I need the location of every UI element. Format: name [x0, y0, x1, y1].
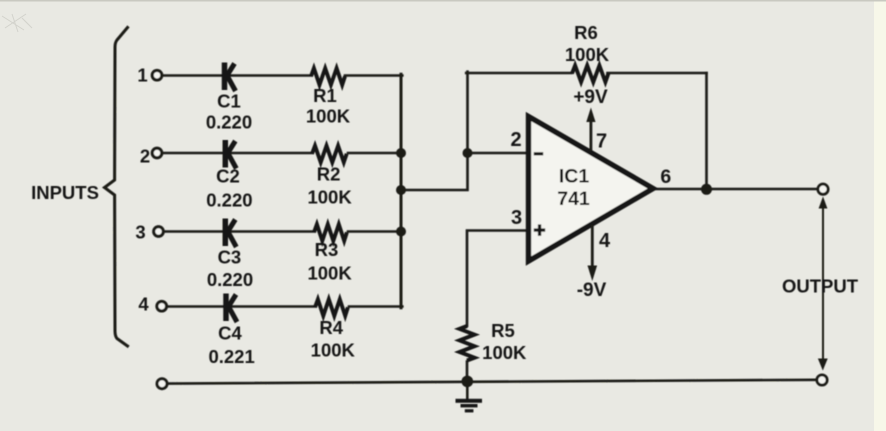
- terminal output bottom: [817, 375, 827, 385]
- svg-text:-9V: -9V: [577, 280, 607, 301]
- capacitor C3: [225, 219, 236, 248]
- node dot bus tap: [396, 185, 406, 195]
- wire ground stub: [466, 381, 469, 399]
- node dot bus row2: [396, 148, 406, 158]
- faint scan smudge top-left: [2, 14, 32, 32]
- svg-text:3: 3: [511, 207, 522, 229]
- capacitor C1: [225, 63, 236, 92]
- terminal output top: [818, 184, 828, 194]
- svg-text:1: 1: [137, 65, 147, 86]
- top faint scan line: [0, 0, 886, 2]
- wire ground rail bottom: [169, 380, 816, 384]
- wire input2: [162, 152, 313, 155]
- svg-text:C2: C2: [216, 166, 240, 187]
- svg-text:3: 3: [135, 222, 145, 243]
- wire bus tap to node: [401, 72, 468, 190]
- op-amp minus sign: [534, 152, 543, 155]
- op-amp plus sign: [534, 224, 545, 235]
- capacitor C4: [226, 294, 237, 323]
- svg-text:100K: 100K: [311, 339, 356, 360]
- resistor R5 (vertical): [460, 326, 475, 360]
- wire summing bus vertical: [400, 74, 403, 308]
- svg-text:R1: R1: [313, 85, 337, 106]
- node dot bus row3: [396, 227, 406, 237]
- svg-text:INPUTS: INPUTS: [31, 182, 99, 203]
- wire feedback top right: [608, 72, 707, 75]
- svg-text:100K: 100K: [307, 263, 352, 284]
- terminal input 1: [152, 70, 162, 80]
- op-amp IC1 triangle: [529, 117, 654, 262]
- svg-text:+9V: +9V: [573, 87, 608, 108]
- node dot inverting input: [463, 148, 473, 158]
- svg-text:100K: 100K: [565, 44, 610, 65]
- svg-text:100K: 100K: [482, 342, 527, 363]
- svg-text:741: 741: [557, 188, 590, 210]
- svg-text:2: 2: [510, 129, 521, 151]
- -9V arrow: [588, 225, 598, 281]
- svg-text:0.221: 0.221: [208, 346, 254, 367]
- capacitor C2: [225, 140, 236, 169]
- svg-text:IC1: IC1: [559, 166, 590, 188]
- svg-text:OUTPUT: OUTPUT: [782, 276, 859, 297]
- svg-text:0.220: 0.220: [206, 190, 252, 211]
- resistor R3: [314, 224, 347, 241]
- svg-text:7: 7: [596, 131, 607, 153]
- svg-text:6: 6: [660, 166, 671, 188]
- svg-text:C4: C4: [218, 323, 242, 344]
- wire output: [653, 188, 816, 191]
- wire pin3: [467, 231, 529, 327]
- wire input2 to bus: [348, 152, 401, 155]
- svg-text:R4: R4: [319, 317, 343, 338]
- wire input3 to bus: [348, 230, 401, 233]
- wire R5 bottom: [466, 362, 469, 382]
- wire feedback top: [466, 72, 571, 75]
- brace INPUTS: [105, 28, 128, 347]
- svg-text:C3: C3: [218, 246, 242, 267]
- terminal input 3: [154, 227, 164, 237]
- node dot R5 ground junction: [462, 376, 474, 388]
- svg-text:100K: 100K: [307, 187, 352, 208]
- wire input1 to bus: [345, 74, 402, 77]
- svg-text:0.220: 0.220: [206, 112, 252, 133]
- svg-text:0.220: 0.220: [207, 269, 253, 290]
- wire input3: [164, 230, 315, 233]
- output double arrow: [818, 197, 828, 371]
- ground symbol: [456, 399, 483, 413]
- svg-text:100K: 100K: [306, 106, 351, 127]
- right page-edge light strip: [874, 0, 886, 431]
- terminal ground left: [157, 379, 167, 389]
- svg-text:4: 4: [599, 230, 611, 252]
- wire input1: [162, 74, 312, 77]
- terminal input 4: [157, 301, 167, 311]
- svg-text:R3: R3: [315, 239, 339, 260]
- terminal input 2: [152, 148, 162, 158]
- resistor R6: [572, 66, 608, 83]
- resistor R2: [312, 146, 347, 163]
- wire pin2: [468, 152, 529, 155]
- svg-text:4: 4: [138, 294, 149, 315]
- svg-text:R5: R5: [491, 320, 515, 341]
- svg-text:C1: C1: [217, 91, 241, 112]
- wire input4: [168, 305, 316, 308]
- node dot output junction: [701, 184, 712, 195]
- wire input4 to bus: [349, 305, 402, 308]
- svg-text:R6: R6: [574, 22, 598, 43]
- svg-text:R2: R2: [317, 164, 341, 185]
- svg-text:2: 2: [140, 146, 150, 167]
- wire feedback down: [705, 73, 708, 190]
- resistor R1: [311, 68, 345, 85]
- +9V arrow: [586, 108, 595, 152]
- resistor R4: [315, 299, 348, 316]
